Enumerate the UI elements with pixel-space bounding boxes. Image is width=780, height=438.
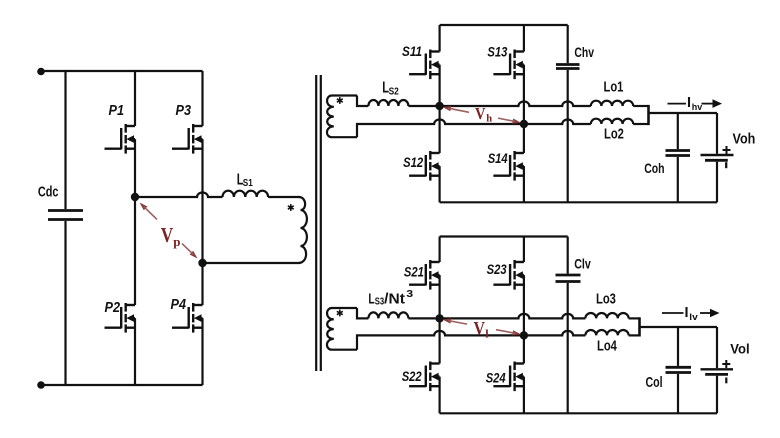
inductor Lo3 bbox=[585, 313, 628, 318]
svg-text:lv: lv bbox=[689, 312, 698, 323]
wire: HV bridge top rail bbox=[440, 24, 568, 26]
wire: LV output wire bbox=[640, 326, 718, 328]
battery Voh minus tick bbox=[725, 162, 727, 168]
inductor Lo4 bbox=[585, 330, 628, 335]
voltage arrow Vl bbox=[443, 319, 452, 324]
svg-text:S12: S12 bbox=[403, 155, 423, 170]
wire: HV leg B middle segment bbox=[523, 65, 525, 153]
battery Voh plus sign bbox=[723, 149, 731, 151]
svg-text:P2: P2 bbox=[105, 300, 121, 316]
wire: winding2 bottom terminal with hop over LV leg A bbox=[357, 331, 524, 350]
transformer primary winding bbox=[299, 197, 307, 263]
wire: HV leg B source segment bbox=[523, 166, 525, 202]
svg-text:S3: S3 bbox=[375, 297, 385, 308]
svg-text:Lo1: Lo1 bbox=[604, 79, 624, 95]
transistor P1 bbox=[126, 125, 135, 127]
wire: winding2 top terminal step bbox=[357, 308, 368, 318]
wire: LV bridge top rail bbox=[440, 235, 568, 237]
battery Vol bbox=[716, 327, 718, 368]
wire: LV bridge bottom rail to output bbox=[440, 412, 717, 414]
svg-text:V: V bbox=[474, 319, 486, 340]
polarity dot primary bbox=[290, 204, 292, 211]
inductor Lo1 bbox=[591, 101, 633, 106]
transistor S14 bbox=[515, 152, 524, 154]
svg-text:Voh: Voh bbox=[733, 132, 756, 148]
svg-text:Lo4: Lo4 bbox=[597, 338, 617, 354]
battery Vol plus sign bbox=[722, 363, 730, 365]
node: DC input positive terminal bbox=[37, 68, 45, 76]
transistor P3 bbox=[193, 125, 202, 127]
transformer core line 1 bbox=[315, 75, 317, 371]
wire: LV lower output wire with hop over Clv bbox=[524, 331, 586, 336]
wire: Lo3/Lo4 joining bar bbox=[629, 317, 640, 319]
svg-text:P3: P3 bbox=[176, 103, 192, 119]
voltage arrow Vp bbox=[140, 203, 148, 211]
svg-text:Lo2: Lo2 bbox=[604, 126, 624, 142]
wire: HV output wire bbox=[649, 112, 718, 114]
wire: LS1 to primary winding bbox=[268, 196, 299, 198]
current arrow Ihv bbox=[668, 103, 687, 105]
wire: left leg A source segment bbox=[134, 318, 136, 385]
svg-text:I: I bbox=[685, 305, 689, 321]
wire: left leg B drain segment bbox=[201, 71, 203, 126]
svg-text:p: p bbox=[173, 234, 180, 249]
svg-text:L: L bbox=[368, 291, 374, 308]
capacitor Coh bbox=[677, 113, 679, 149]
svg-text:S23: S23 bbox=[487, 262, 507, 277]
node B: bridge midpoint leg B bbox=[198, 259, 206, 267]
svg-text:S2: S2 bbox=[389, 85, 399, 97]
transistor S23 bbox=[515, 261, 524, 263]
svg-text:Cdc: Cdc bbox=[38, 184, 59, 200]
transformer secondary winding 2 bbox=[327, 308, 357, 350]
transistor S13 bbox=[515, 50, 524, 52]
svg-text:P1: P1 bbox=[109, 103, 125, 119]
svg-text:hv: hv bbox=[692, 102, 703, 113]
wire: DC bus top rail bbox=[41, 70, 203, 72]
wire: LS3 to node E bbox=[408, 317, 439, 319]
transistor S22 bbox=[430, 362, 439, 364]
wire: HV bridge bottom rail to output bbox=[440, 201, 717, 203]
transistor P4 bbox=[193, 304, 202, 306]
transistor S12 bbox=[430, 152, 439, 154]
svg-text:Lo3: Lo3 bbox=[596, 291, 616, 307]
wire: HV leg A source segment bbox=[439, 166, 441, 202]
wire: winding1 bottom terminal with hop over HV leg A bbox=[357, 120, 524, 138]
svg-text:S24: S24 bbox=[486, 371, 506, 386]
wire: LV leg A drain segment bbox=[439, 237, 441, 263]
wire: LS2 to node C bbox=[408, 105, 439, 107]
wire: HV lower output wire with hop over Chv bbox=[524, 120, 591, 125]
node A: bridge midpoint leg A bbox=[131, 193, 139, 201]
wire: HV leg A middle segment bbox=[439, 65, 441, 153]
svg-text:Coh: Coh bbox=[644, 160, 664, 176]
svg-text:S13: S13 bbox=[487, 45, 507, 60]
polarity dot secondary 2 bbox=[339, 310, 341, 317]
svg-text:Vol: Vol bbox=[730, 342, 749, 358]
wire: HV leg B drain segment bbox=[523, 25, 525, 52]
voltage arrow Vh bbox=[443, 106, 452, 111]
inductor Lo2 bbox=[591, 119, 633, 124]
svg-text:S14: S14 bbox=[488, 151, 508, 166]
node E: LV bridge midpoint leg A bbox=[435, 314, 443, 322]
wire: HV leg A drain segment bbox=[439, 25, 441, 52]
transformer core line 2 bbox=[320, 75, 322, 371]
svg-text:S21: S21 bbox=[404, 264, 424, 279]
wire: LV leg B drain segment bbox=[523, 237, 525, 263]
transistor S21 bbox=[430, 261, 439, 263]
wire: LV leg A source segment bbox=[439, 377, 441, 414]
node D: HV bridge midpoint leg B bbox=[520, 120, 528, 128]
wire: left leg B source segment bbox=[201, 318, 203, 385]
current arrow Ilv bbox=[662, 312, 684, 314]
node F: LV bridge midpoint leg B bbox=[520, 331, 528, 339]
svg-text:l: l bbox=[485, 327, 489, 341]
svg-text:3: 3 bbox=[406, 289, 413, 300]
capacitor Chv bbox=[567, 25, 569, 63]
battery Vol minus tick bbox=[725, 378, 727, 384]
svg-text:V: V bbox=[161, 223, 174, 247]
wire: LV upper output wire with hops over leg B and Clv bbox=[440, 314, 586, 319]
svg-text:I: I bbox=[687, 95, 691, 111]
wire: LV leg B middle segment bbox=[523, 275, 525, 363]
transistor S24 bbox=[515, 362, 524, 364]
wire: primary upper wire with hop over leg B bbox=[135, 193, 223, 198]
transistor S11 bbox=[430, 50, 439, 52]
svg-text:Chv: Chv bbox=[574, 45, 594, 60]
wire: left leg B middle segment bbox=[201, 139, 203, 305]
wire: left leg A middle segment bbox=[134, 139, 136, 305]
svg-text:Col: Col bbox=[646, 375, 663, 391]
polarity dot secondary 1 bbox=[339, 97, 341, 104]
wire: DC bus bottom rail bbox=[41, 384, 203, 386]
battery Voh bbox=[716, 113, 718, 154]
wire: left leg A drain segment bbox=[134, 71, 136, 126]
svg-text:S11: S11 bbox=[402, 44, 422, 59]
node: DC input negative terminal bbox=[37, 381, 45, 389]
svg-text:V: V bbox=[475, 104, 486, 123]
transformer secondary winding 1 bbox=[327, 95, 357, 137]
node C: HV bridge midpoint leg A bbox=[435, 102, 443, 110]
capacitor Clv bbox=[567, 237, 569, 274]
inductor LS3 bbox=[368, 312, 408, 318]
svg-text:S22: S22 bbox=[402, 369, 422, 384]
svg-text:P4: P4 bbox=[171, 297, 187, 313]
transistor P2 bbox=[126, 304, 135, 306]
svg-text:/Nt: /Nt bbox=[384, 291, 405, 308]
svg-text:S1: S1 bbox=[243, 177, 253, 189]
capacitor Cdc bbox=[64, 71, 66, 209]
capacitor Col bbox=[677, 327, 679, 366]
wire: LV leg A middle segment bbox=[439, 275, 441, 363]
wire: primary lower return wire bbox=[203, 262, 300, 264]
wire: LV leg B source segment bbox=[523, 377, 525, 414]
wire: HV upper output wire with hops over leg B and Chv bbox=[440, 102, 591, 107]
wire: Lo1/Lo2 joining bar bbox=[633, 105, 648, 107]
inductor LS2 bbox=[368, 100, 408, 106]
inductor LS1 bbox=[223, 191, 269, 197]
wire: winding1 top terminal step bbox=[357, 96, 368, 107]
svg-text:Clv: Clv bbox=[574, 257, 591, 273]
svg-text:h: h bbox=[486, 114, 492, 125]
